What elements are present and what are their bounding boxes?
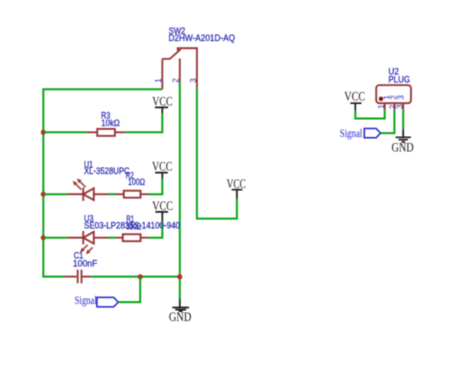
svg-text:VCC: VCC [152,93,172,108]
svg-text:3: 3 [397,95,406,100]
svg-text:330Ω: 330Ω [126,221,141,232]
svg-text:D2HW-A201D-AQ: D2HW-A201D-AQ [169,33,236,44]
svg-text:VCC: VCC [152,158,172,173]
svg-text:VCC: VCC [152,198,173,213]
svg-text:GND: GND [392,140,414,155]
svg-text:3: 3 [189,78,198,83]
svg-text:1: 1 [377,104,386,109]
svg-text:100Ω: 100Ω [128,177,145,188]
svg-text:Signal: Signal [340,128,363,140]
svg-text:2: 2 [172,78,181,83]
svg-text:Signal: Signal [75,295,97,307]
svg-text:1: 1 [154,78,163,83]
svg-text:PLUG: PLUG [388,75,410,86]
svg-text:GND: GND [169,309,191,324]
svg-text:XL-3528UPC: XL-3528UPC [84,166,130,177]
svg-text:10kΩ: 10kΩ [101,118,119,129]
svg-text:3: 3 [395,104,404,109]
svg-text:100nF: 100nF [73,259,98,270]
svg-text:VCC: VCC [227,176,246,191]
svg-text:VCC: VCC [344,89,365,104]
